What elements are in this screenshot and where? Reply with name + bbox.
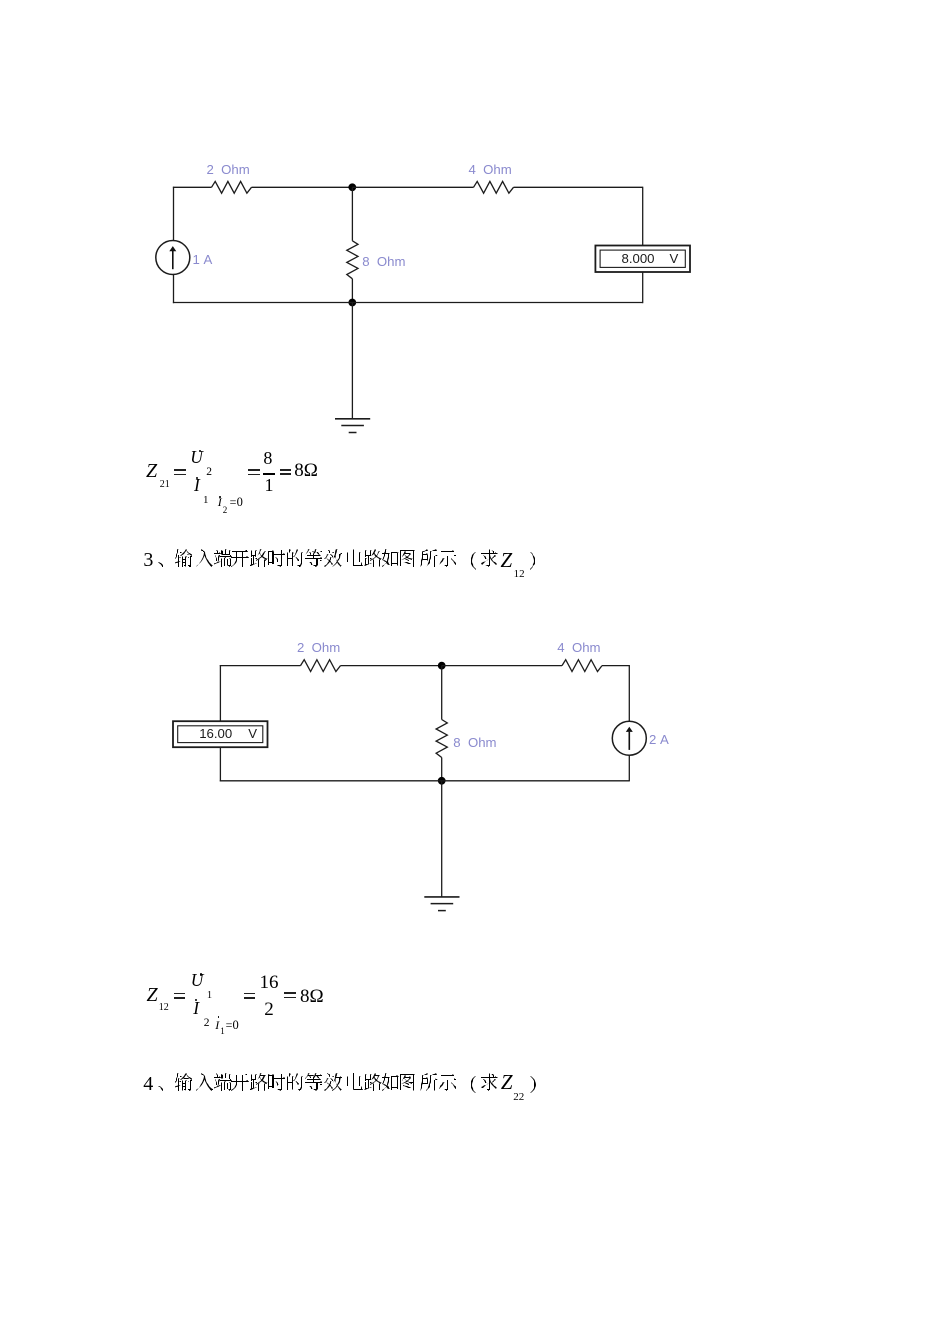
formula 2: condition I1=0 — [215, 1019, 219, 1031]
voltmeter unit V (circuit 1) — [670, 252, 679, 265]
voltmeter reading 16.00 (circuit 2) — [199, 727, 232, 740]
formula 2: subscript 2 of I — [204, 1018, 210, 1030]
resistor 4 Ohm (circuit 1) — [474, 181, 514, 193]
wire: circuit1 bottom rail — [173, 302, 643, 304]
formula 1: numerator 8 — [263, 449, 272, 467]
formula 1: I denominator — [194, 477, 200, 495]
item 4: subscript 22 — [513, 1092, 524, 1103]
node: circuit2 bottom junction — [438, 777, 446, 785]
formula 1: denominator 1 — [265, 476, 274, 494]
wire: circuit2 bottom rail — [220, 780, 630, 782]
formula 2: numerator 16 — [260, 973, 279, 992]
formula 2: I denominator — [193, 1000, 199, 1018]
label: 2 Ohm (circuit 1) — [207, 163, 250, 176]
label: 8 Ohm (circuit 2) — [453, 736, 496, 749]
formula 1: result 8 Ohm — [294, 461, 318, 480]
wire: circuit1 middle branch lower (R 8 Ohm to bottom node) — [351, 279, 353, 303]
resistor 8 Ohm (circuit 1) — [347, 241, 358, 279]
label: 4 Ohm (circuit 2) — [557, 641, 600, 654]
label: 2 A (circuit 2) — [649, 733, 669, 746]
formula 1: dot above I — [196, 477, 198, 479]
item 3: variable Z — [501, 550, 513, 571]
formula 1: equals 3 — [280, 469, 292, 471]
wire: circuit2 middle branch upper (node to R 8 Ohm) — [441, 666, 443, 720]
formula 2: dot above condition I — [218, 1016, 220, 1018]
item 4: variable Z — [501, 1072, 513, 1093]
wire: circuit1 top (node 2 to R 4 Ohm) — [352, 186, 473, 188]
wire: circuit2 middle branch lower (R 8 Ohm to bottom node) — [441, 758, 443, 781]
voltmeter 8.000 V (circuit 1) — [595, 246, 690, 273]
current source 1 A (circuit 1) — [156, 241, 190, 275]
formula 2: result 8 Ohm — [300, 987, 324, 1006]
wire: circuit1 middle branch upper (node to R 8 Ohm) — [351, 187, 353, 241]
ground (circuit 1) — [335, 419, 370, 433]
label: 2 Ohm (circuit 2) — [297, 641, 340, 654]
voltmeter reading 8.000 (circuit 1) — [622, 252, 655, 265]
label: 1 A (circuit 1) — [193, 253, 213, 266]
label: 4 Ohm (circuit 1) — [469, 163, 512, 176]
wire: circuit1 left bottom stub (source to bottom rail) — [173, 274, 175, 303]
formula 1: Z variable — [146, 461, 157, 481]
node: circuit2 top junction — [438, 662, 446, 670]
formula 1: dot above condition I — [219, 496, 221, 498]
node: circuit1 top junction — [348, 183, 356, 191]
formula 1: subscript 21 — [160, 480, 170, 490]
wire: circuit1 right bottom stub (voltmeter to bottom rail) — [642, 272, 644, 304]
formula 2: U numerator — [191, 972, 204, 990]
wire: circuit1 ground stem — [351, 303, 353, 419]
formula 1: condition I2=0 — [218, 496, 222, 508]
resistor 8 Ohm (circuit 2) — [436, 720, 447, 758]
formula 1: equals 2 — [248, 469, 260, 471]
formula 1: equals 1 — [174, 469, 186, 471]
wire: circuit1 top-right segment and right drop to voltmeter — [514, 187, 643, 247]
wire: circuit1 top-left segment (source to R 2 Ohm) — [173, 187, 212, 241]
wire: circuit1 top middle (R 2 Ohm to node 2) — [252, 186, 353, 188]
wire: circuit2 top-right segment and right drop to source — [602, 665, 629, 722]
item number 4 — [143, 1074, 153, 1094]
wire: circuit2 ground stem — [441, 781, 443, 897]
item 3: subscript 12 — [514, 569, 525, 580]
formula 2: equals 3 — [284, 992, 296, 994]
formula 1: subscript 1 of I — [203, 495, 209, 506]
text line item 4 closing paren — [530, 1076, 536, 1093]
voltmeter unit V (circuit 2) — [248, 727, 257, 740]
formula 2: superscript 1 of U — [207, 991, 212, 1002]
formula 2: dot above U — [200, 973, 202, 975]
current source 2 A (circuit 2) — [612, 721, 646, 755]
wire: circuit2 top middle (R 2 Ohm to node 1) — [341, 665, 442, 667]
text line item 4 CJK run — [158, 1073, 498, 1093]
wire: circuit2 top (node 1 to R 4 Ohm) — [442, 665, 562, 667]
formula 1: subscript 2 of U — [206, 467, 212, 479]
text line item 3 CJK run — [158, 549, 498, 570]
formula 2: dot above I — [195, 999, 197, 1001]
formula 1: fraction bar — [263, 473, 276, 475]
formula 1: U numerator — [190, 449, 203, 467]
wire: circuit2 top-left segment (voltmeter branch to R 2 Ohm) — [220, 665, 301, 722]
label: 8 Ohm (circuit 1) — [362, 255, 405, 268]
item number 3 — [143, 550, 153, 570]
formula 2: equals 1 — [174, 993, 186, 995]
resistor 2 Ohm (circuit 2) — [301, 660, 341, 672]
formula 1: dot above U — [199, 450, 201, 452]
formula 2: Z variable — [147, 985, 158, 1005]
formula 2: denominator 2 — [264, 1000, 274, 1019]
wire: circuit2 right bottom stub (source to bottom rail) — [628, 755, 630, 781]
formula 2: equals 2 — [244, 993, 256, 995]
voltmeter 16.00 V (circuit 2) — [173, 721, 268, 747]
resistor 4 Ohm (circuit 2) — [562, 660, 602, 672]
resistor 2 Ohm (circuit 1) — [212, 181, 252, 193]
text line item 3 closing paren — [530, 552, 535, 570]
wire: circuit2 left bottom stub (voltmeter to bottom rail) — [219, 747, 221, 782]
node: circuit1 bottom junction — [348, 299, 356, 307]
ground (circuit 2) — [424, 897, 459, 911]
formula 2: subscript 12 — [159, 1003, 169, 1013]
